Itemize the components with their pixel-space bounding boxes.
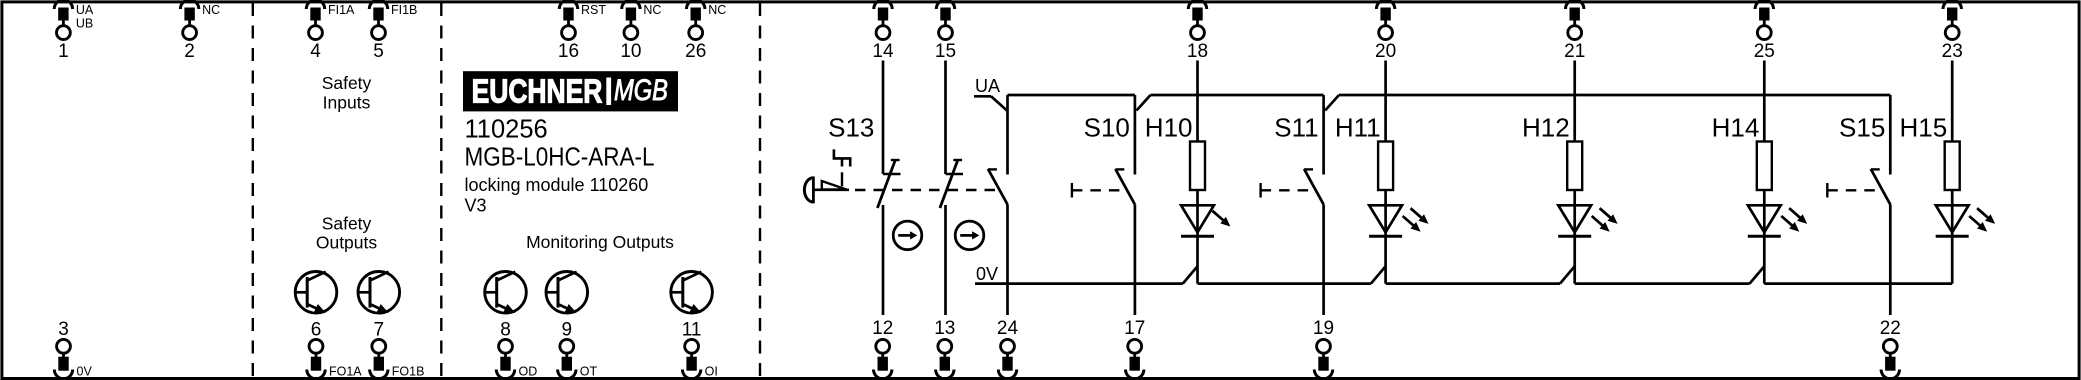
svg-text:UB: UB xyxy=(76,17,93,31)
LED H11 with resistor xyxy=(1369,61,1402,284)
svg-text:H10: H10 xyxy=(1145,113,1193,143)
svg-text:OD: OD xyxy=(519,365,538,379)
actuator dashed link S13 xyxy=(855,189,999,191)
wire UA rail jog at S10 xyxy=(1137,95,1151,111)
svg-text:22: 22 xyxy=(1880,318,1901,339)
actuator dashed link S10 xyxy=(1072,183,1127,198)
wire 0V rail segment 3 xyxy=(1386,282,1560,285)
terminal 13 xyxy=(934,318,955,379)
LED H10 with resistor xyxy=(1181,61,1214,284)
wire 0V rail jog at H14 xyxy=(1750,266,1765,283)
svg-text:19: 19 xyxy=(1313,318,1334,339)
terminal 19 xyxy=(1313,318,1334,379)
svg-text:25: 25 xyxy=(1754,41,1775,62)
svg-text:FI1B: FI1B xyxy=(391,3,417,17)
contact S10 xyxy=(1115,95,1135,315)
svg-text:13: 13 xyxy=(934,318,955,339)
svg-text:S11: S11 xyxy=(1274,113,1318,143)
wire UA rail segment 3 xyxy=(1339,94,1890,97)
transistor output 9 xyxy=(546,272,588,341)
svg-text:H15: H15 xyxy=(1899,113,1947,143)
terminal 15 xyxy=(935,0,956,62)
svg-text:26: 26 xyxy=(685,41,706,62)
svg-text:NC: NC xyxy=(202,3,220,17)
terminal 26 xyxy=(685,0,726,62)
svg-text:MGB-L0HC-ARA-L: MGB-L0HC-ARA-L xyxy=(465,144,655,172)
terminal 23 xyxy=(1942,0,1963,62)
svg-text:3: 3 xyxy=(58,319,69,340)
svg-text:15: 15 xyxy=(935,41,956,62)
svg-text:Safety: Safety xyxy=(322,214,372,234)
svg-text:S13: S13 xyxy=(828,113,874,143)
separator 2 xyxy=(440,3,442,377)
terminal 5 xyxy=(369,0,417,62)
transistor output 8 xyxy=(485,272,527,341)
separator 3 xyxy=(759,3,761,377)
LED H11 light arrows xyxy=(1403,208,1429,232)
wire 0V rail jog at H10 xyxy=(1183,266,1198,283)
terminal 18 xyxy=(1187,0,1208,62)
emergency stop mushroom actuator S13 xyxy=(804,177,849,204)
label Safety Inputs xyxy=(322,73,372,113)
svg-text:17: 17 xyxy=(1124,318,1145,339)
terminal 1 xyxy=(54,0,94,62)
svg-text:24: 24 xyxy=(997,318,1019,339)
LED H14 light arrows xyxy=(1781,208,1807,232)
svg-text:H11: H11 xyxy=(1335,113,1381,143)
svg-text:Inputs: Inputs xyxy=(323,93,371,113)
svg-text:RST: RST xyxy=(581,3,606,17)
svg-text:Monitoring Outputs: Monitoring Outputs xyxy=(526,232,674,252)
wire UA rail segment 2 xyxy=(1151,94,1324,97)
EUCHNER MGB logo xyxy=(463,71,678,111)
svg-text:Outputs: Outputs xyxy=(316,233,378,253)
contact S13 pole UA-24 xyxy=(988,95,1008,315)
svg-text:12: 12 xyxy=(872,318,893,339)
actuator dashed link S11 xyxy=(1261,183,1316,198)
svg-text:21: 21 xyxy=(1564,41,1585,62)
LED H12 light arrows xyxy=(1592,208,1618,232)
terminal 22 xyxy=(1880,318,1901,379)
contact S13 pole 15-13 xyxy=(940,61,963,316)
svg-text:H14: H14 xyxy=(1712,113,1760,143)
terminal 11 xyxy=(682,339,717,378)
terminal 7 xyxy=(370,339,425,378)
label Safety Outputs xyxy=(316,214,378,253)
node UA xyxy=(974,76,1008,111)
wire UA rail jog at S11 xyxy=(1325,95,1339,111)
terminal 17 xyxy=(1124,318,1145,379)
svg-text:NC: NC xyxy=(643,3,661,17)
LED H15 light arrows xyxy=(1969,208,1995,232)
svg-text:UA: UA xyxy=(975,76,1000,96)
latching symbol S13 xyxy=(834,149,850,186)
svg-text:OT: OT xyxy=(580,365,598,379)
LED H14 with resistor xyxy=(1748,61,1781,284)
svg-text:S15: S15 xyxy=(1839,113,1885,143)
wire 0V rail segment 2 xyxy=(1198,282,1371,285)
svg-text:Safety: Safety xyxy=(322,73,372,93)
svg-text:NC: NC xyxy=(708,3,726,17)
terminal 2 xyxy=(180,0,220,62)
terminal 20 xyxy=(1375,0,1396,62)
transistor output 6 xyxy=(295,272,337,341)
svg-text:1: 1 xyxy=(58,41,69,62)
terminal 6 xyxy=(307,339,363,378)
transistor output 7 xyxy=(358,272,400,341)
contact S15 xyxy=(1871,95,1891,315)
svg-text:4: 4 xyxy=(310,41,321,62)
svg-text:9: 9 xyxy=(562,320,573,341)
transistor output 11 xyxy=(671,272,713,341)
svg-text:MGB: MGB xyxy=(614,73,668,106)
contact S13 pole 14-12 xyxy=(877,61,900,316)
svg-text:8: 8 xyxy=(500,320,511,341)
svg-text:23: 23 xyxy=(1942,41,1963,62)
direct opening symbol 2 xyxy=(955,221,984,250)
svg-text:11: 11 xyxy=(682,320,702,341)
wire 0V rail jog at H12 xyxy=(1560,266,1575,283)
terminal 3 xyxy=(54,319,92,379)
terminal 14 xyxy=(872,0,894,62)
terminal 21 xyxy=(1564,0,1585,62)
terminal 24 xyxy=(997,318,1019,379)
svg-text:18: 18 xyxy=(1187,41,1208,62)
svg-text:FO1A: FO1A xyxy=(329,365,362,379)
svg-text:0V: 0V xyxy=(976,264,998,284)
terminal 9 xyxy=(558,339,598,378)
separator 1 xyxy=(252,3,254,377)
actuator dashed link S15 xyxy=(1827,183,1882,198)
svg-text:UA: UA xyxy=(76,3,94,17)
svg-text:S10: S10 xyxy=(1084,113,1130,143)
direct opening symbol 1 xyxy=(893,221,922,250)
svg-text:110256: 110256 xyxy=(465,116,548,144)
LED H12 with resistor xyxy=(1558,61,1591,284)
svg-text:H12: H12 xyxy=(1522,113,1570,143)
svg-text:OI: OI xyxy=(705,365,718,379)
svg-text:locking module 110260: locking module 110260 xyxy=(465,175,649,195)
svg-text:EUCHNER: EUCHNER xyxy=(472,74,603,111)
LED H10 light arrow xyxy=(1212,211,1230,227)
wire UA rail segment 1 xyxy=(1008,94,1135,97)
svg-text:7: 7 xyxy=(374,320,385,341)
wire 0V rail segment 1 xyxy=(975,282,1183,285)
svg-text:20: 20 xyxy=(1375,41,1396,62)
wire 0V rail segment 4 xyxy=(1575,282,1750,285)
svg-text:2: 2 xyxy=(184,41,195,62)
terminal 16 xyxy=(558,0,606,62)
svg-text:6: 6 xyxy=(311,320,322,341)
terminal 10 xyxy=(620,0,661,62)
terminal 12 xyxy=(872,318,893,379)
terminal 8 xyxy=(496,339,537,378)
contact S11 xyxy=(1304,95,1324,315)
svg-text:0V: 0V xyxy=(77,365,93,379)
svg-text:FI1A: FI1A xyxy=(328,3,355,17)
terminal 25 xyxy=(1754,0,1775,62)
wire 0V rail jog at H11 xyxy=(1371,266,1386,283)
svg-text:10: 10 xyxy=(620,41,641,62)
svg-text:5: 5 xyxy=(373,41,384,62)
svg-text:14: 14 xyxy=(872,41,894,62)
wire 0V rail segment 5 xyxy=(1764,282,1952,285)
terminal 4 xyxy=(306,0,355,62)
svg-text:16: 16 xyxy=(558,41,579,62)
LED H15 with resistor xyxy=(1936,61,1969,284)
svg-text:V3: V3 xyxy=(465,196,487,216)
svg-text:FO1B: FO1B xyxy=(392,365,425,379)
